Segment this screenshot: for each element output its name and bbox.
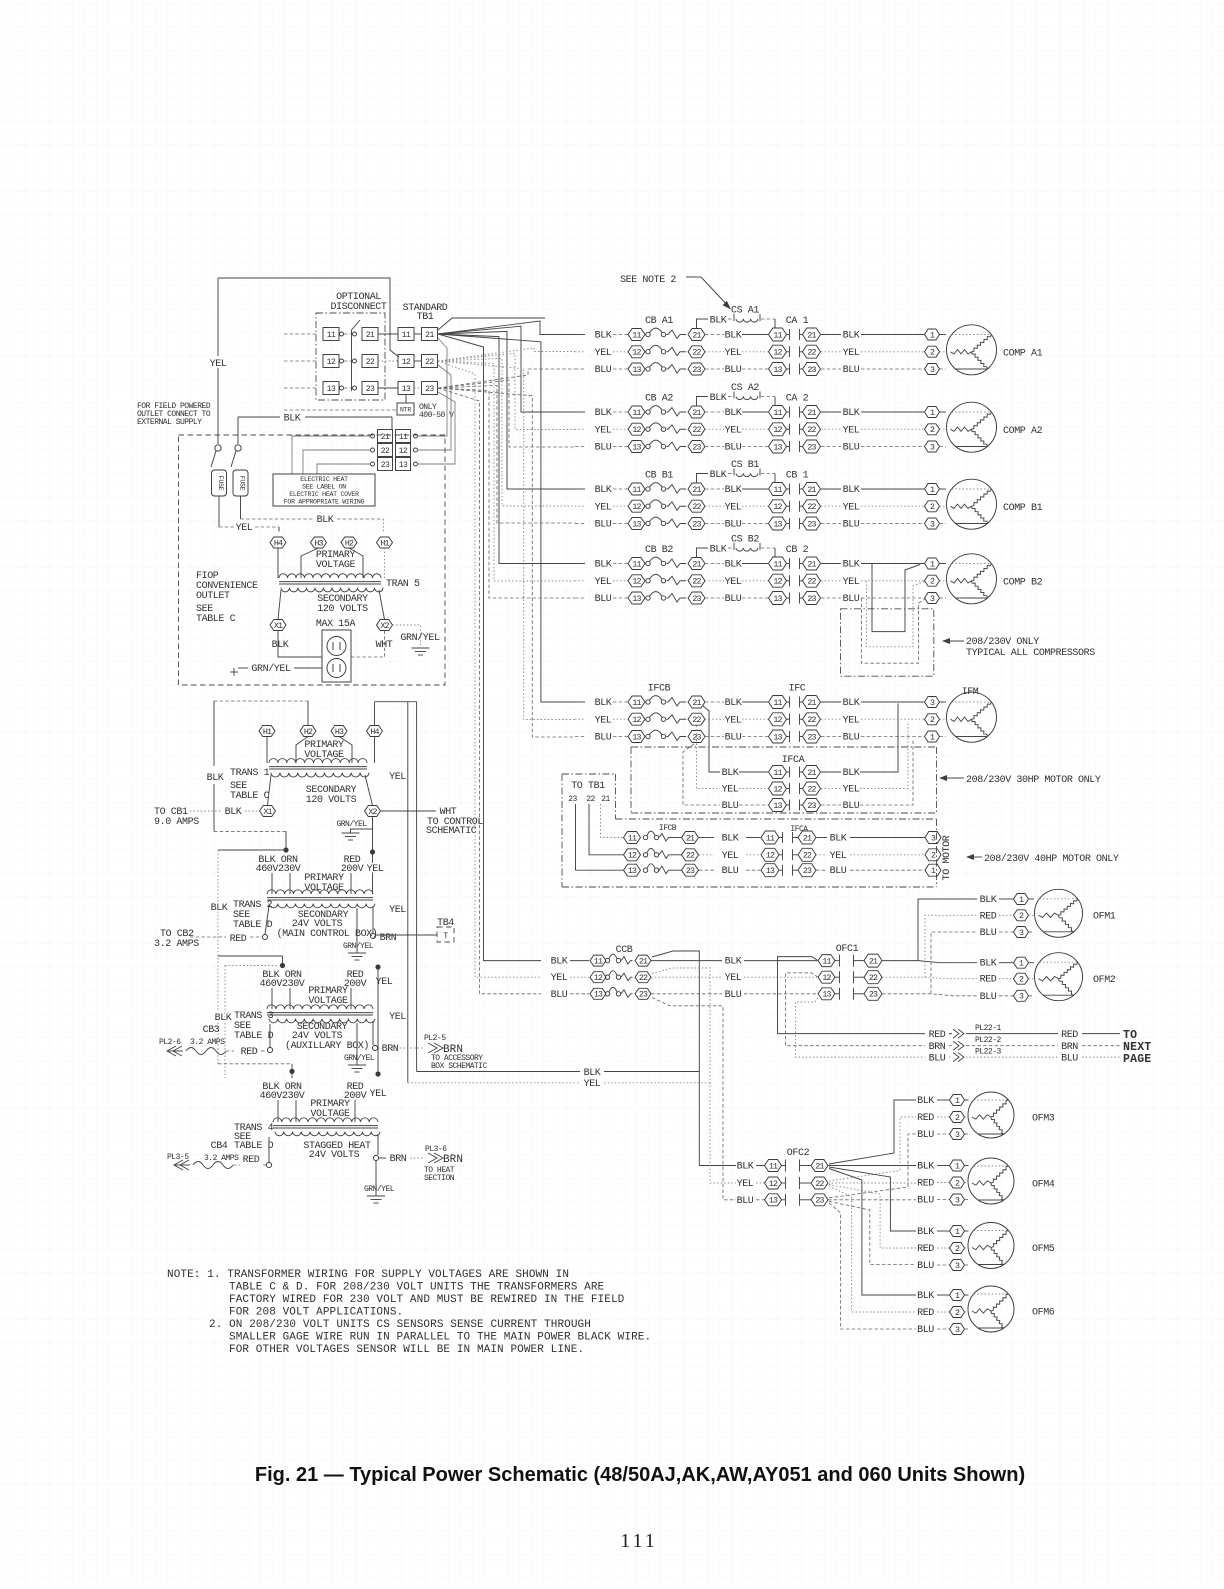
svg-text:3: 3 xyxy=(930,520,935,529)
svg-text:208/230V 40HP MOTOR ONLY: 208/230V 40HP MOTOR ONLY xyxy=(984,853,1119,865)
svg-text:RED: RED xyxy=(917,1113,934,1124)
svg-text:YEL: YEL xyxy=(595,577,612,588)
label FIOP xyxy=(196,571,258,625)
svg-text:YEL: YEL xyxy=(376,977,393,988)
svg-text:22: 22 xyxy=(366,358,375,367)
svg-text:CS B2: CS B2 xyxy=(731,535,759,546)
terminal block TB1 xyxy=(378,303,448,395)
svg-text:23: 23 xyxy=(568,795,577,804)
svg-text:RED: RED xyxy=(243,1155,260,1166)
svg-text:23: 23 xyxy=(807,802,816,811)
svg-text:12: 12 xyxy=(632,716,641,725)
svg-text:BLU: BLU xyxy=(725,443,742,454)
svg-text:120 VOLTS: 120 VOLTS xyxy=(317,604,368,615)
circuit breaker IFCB lower xyxy=(624,824,761,877)
svg-text:23: 23 xyxy=(815,1197,824,1206)
svg-text:11: 11 xyxy=(773,331,782,340)
svg-text:BLK: BLK xyxy=(595,331,612,342)
svg-text:BLK: BLK xyxy=(710,316,727,327)
svg-text:RED: RED xyxy=(1061,1030,1078,1041)
svg-text:23: 23 xyxy=(425,385,434,394)
electric heat box xyxy=(273,474,375,506)
svg-text:GRN/YEL: GRN/YEL xyxy=(343,942,374,951)
svg-text:9.0 AMPS: 9.0 AMPS xyxy=(154,817,199,828)
svg-text:200V: 200V xyxy=(341,864,364,875)
transformer TRAN 5 secondary terminals xyxy=(270,590,393,631)
svg-text:2: 2 xyxy=(930,426,935,435)
fan motor OFM3 xyxy=(917,1092,1055,1141)
svg-text:BLU: BLU xyxy=(725,990,742,1001)
svg-text:23: 23 xyxy=(366,385,375,394)
svg-text:21: 21 xyxy=(692,486,701,495)
svg-text:13: 13 xyxy=(594,991,603,1000)
svg-text:3: 3 xyxy=(931,834,936,843)
svg-text:BLU: BLU xyxy=(843,520,860,531)
svg-text:DISCONNECT: DISCONNECT xyxy=(330,302,386,313)
svg-text:CB4: CB4 xyxy=(211,1141,228,1152)
fuse F1 xyxy=(211,445,227,496)
svg-text:13: 13 xyxy=(773,595,782,604)
svg-text:OFM6: OFM6 xyxy=(1032,1308,1055,1319)
svg-text:BLK: BLK xyxy=(917,1291,934,1302)
motor COMP A1 xyxy=(947,325,1043,375)
svg-text:H1: H1 xyxy=(263,728,272,737)
svg-text:CS A1: CS A1 xyxy=(731,306,759,317)
svg-text:NTR: NTR xyxy=(400,407,411,414)
svg-text:Fig. 21 — Typical Power Schema: Fig. 21 — Typical Power Schematic (48/50… xyxy=(255,1464,1025,1486)
svg-text:PL22-1: PL22-1 xyxy=(975,1024,1002,1033)
svg-text:PL22-2: PL22-2 xyxy=(975,1036,1002,1045)
svg-text:11: 11 xyxy=(773,409,782,418)
svg-text:13: 13 xyxy=(632,520,641,529)
svg-text:11: 11 xyxy=(327,331,336,340)
svg-text:CB B2: CB B2 xyxy=(645,545,673,556)
circuit breaker IFCB xyxy=(575,684,724,744)
contactor IFC xyxy=(725,684,946,744)
current sensor CS A2 xyxy=(697,383,776,406)
svg-text:EXTERNAL SUPPLY: EXTERNAL SUPPLY xyxy=(137,418,202,427)
svg-text:BLU: BLU xyxy=(725,594,742,605)
svg-text:13: 13 xyxy=(399,461,408,470)
svg-text:FOR 208 VOLT APPLICATIONS.: FOR 208 VOLT APPLICATIONS. xyxy=(229,1307,403,1319)
svg-text:FOR OTHER VOLTAGES SENSOR WILL: FOR OTHER VOLTAGES SENSOR WILL BE IN MAI… xyxy=(229,1344,584,1356)
svg-text:H4: H4 xyxy=(274,539,283,548)
svg-text:H1: H1 xyxy=(380,539,389,548)
svg-text:MAX 15A: MAX 15A xyxy=(316,619,356,630)
wire YEL to H4 xyxy=(219,496,279,534)
svg-text:YEL: YEL xyxy=(843,348,860,359)
transformer TRAN 5 xyxy=(279,574,381,578)
svg-text:BLU: BLU xyxy=(595,733,612,744)
svg-text:YEL: YEL xyxy=(830,851,847,862)
svg-text:OFM3: OFM3 xyxy=(1032,1114,1055,1125)
wire WHT to control schematic xyxy=(381,807,484,837)
svg-text:12: 12 xyxy=(773,716,782,725)
svg-text:TO TB1: TO TB1 xyxy=(571,781,605,792)
svg-text:11: 11 xyxy=(632,486,641,495)
svg-text:400-50 V: 400-50 V xyxy=(419,411,454,420)
svg-text:3.2 AMPS: 3.2 AMPS xyxy=(190,1038,225,1047)
svg-text:BLU: BLU xyxy=(722,866,739,877)
svg-text:BLK: BLK xyxy=(725,698,742,709)
wire BLK feed TRANS 2 xyxy=(211,831,289,1063)
svg-text:11: 11 xyxy=(773,699,782,708)
svg-text:22: 22 xyxy=(807,785,816,794)
svg-text:BLK: BLK xyxy=(722,834,739,845)
svg-text:2: 2 xyxy=(1019,912,1024,921)
wire BLK A1 top run xyxy=(438,318,545,330)
svg-text:BLK: BLK xyxy=(725,957,742,968)
svg-text:22: 22 xyxy=(807,503,816,512)
pointer 208/230V 40HP MOTOR ONLY xyxy=(966,853,1119,865)
wire bundle TB1 to loads xyxy=(438,321,575,994)
svg-text:13: 13 xyxy=(822,991,831,1000)
svg-text:H2: H2 xyxy=(345,539,354,548)
notes text xyxy=(167,1269,651,1356)
contactor CA 1 xyxy=(725,316,946,376)
svg-text:12: 12 xyxy=(628,852,637,861)
svg-text:YEL: YEL xyxy=(725,715,742,726)
svg-text:BLK: BLK xyxy=(595,408,612,419)
svg-text:BLU: BLU xyxy=(830,866,847,877)
pointer 208/230V 30HP MOTOR ONLY xyxy=(939,774,1101,786)
svg-text:BLK: BLK xyxy=(211,903,228,914)
svg-text:11: 11 xyxy=(399,433,408,442)
svg-text:CB B1: CB B1 xyxy=(645,471,673,482)
svg-text:BLU: BLU xyxy=(551,990,568,1001)
svg-text:12: 12 xyxy=(632,578,641,587)
svg-text:X1: X1 xyxy=(274,622,283,631)
svg-text:21: 21 xyxy=(366,331,375,340)
svg-text:COMP A2: COMP A2 xyxy=(1003,426,1043,437)
svg-text:BLK: BLK xyxy=(710,545,727,556)
svg-text:GRN/YEL: GRN/YEL xyxy=(251,663,291,675)
svg-text:3: 3 xyxy=(930,595,935,604)
svg-text:BLU: BLU xyxy=(725,520,742,531)
svg-text:YEL: YEL xyxy=(595,502,612,513)
svg-text:13: 13 xyxy=(773,366,782,375)
svg-text:CA 2: CA 2 xyxy=(786,394,809,405)
label TO CB1 xyxy=(154,807,260,828)
svg-text:VOLTAGE: VOLTAGE xyxy=(310,1109,350,1120)
svg-text:GRN/YEL: GRN/YEL xyxy=(364,1185,395,1194)
note pointer SEE NOTE 2 xyxy=(620,275,731,310)
svg-text:TRANS 1: TRANS 1 xyxy=(230,768,270,779)
svg-text:1: 1 xyxy=(955,1162,960,1171)
svg-text:BLU: BLU xyxy=(843,594,860,605)
motor xyxy=(947,692,997,742)
svg-text:YEL: YEL xyxy=(367,864,384,875)
svg-text:YEL: YEL xyxy=(843,715,860,726)
svg-text:13: 13 xyxy=(632,443,641,452)
circuit breaker CB B2 xyxy=(575,545,724,605)
transformer TRANS 3 xyxy=(267,1005,373,1009)
svg-text:23: 23 xyxy=(692,595,701,604)
svg-text:21: 21 xyxy=(807,699,816,708)
svg-text:2: 2 xyxy=(931,852,936,861)
svg-text:BLK: BLK xyxy=(595,485,612,496)
current sensor CS B2 xyxy=(697,535,776,558)
svg-text:BLU: BLU xyxy=(843,365,860,376)
svg-text:12: 12 xyxy=(327,358,336,367)
svg-text:TYPICAL ALL COMPRESSORS: TYPICAL ALL COMPRESSORS xyxy=(966,648,1095,659)
svg-text:BLU: BLU xyxy=(929,1054,946,1065)
motor COMP B1 xyxy=(947,479,1043,529)
svg-text:BLK: BLK xyxy=(843,560,860,571)
transformer TRANS 1 primary terminals xyxy=(259,726,383,764)
svg-text:OFM1: OFM1 xyxy=(1093,912,1116,923)
svg-text:23: 23 xyxy=(639,991,648,1000)
svg-text:BLK: BLK xyxy=(725,485,742,496)
svg-text:13: 13 xyxy=(632,366,641,375)
svg-text:2: 2 xyxy=(955,1245,960,1254)
svg-text:RED: RED xyxy=(929,1030,946,1041)
FIOP convenience outlet enclosure xyxy=(179,435,446,685)
disconnect switch poles xyxy=(284,320,378,395)
svg-text:RED: RED xyxy=(980,975,997,986)
transformer TRANS 4 xyxy=(273,1118,378,1122)
svg-text:120 VOLTS: 120 VOLTS xyxy=(306,795,357,806)
svg-text:FUSE: FUSE xyxy=(217,476,224,491)
svg-text:BLK: BLK xyxy=(843,485,860,496)
svg-text:BLU: BLU xyxy=(722,801,739,812)
svg-text:23: 23 xyxy=(807,595,816,604)
svg-text:BLU: BLU xyxy=(595,365,612,376)
svg-text:1: 1 xyxy=(930,331,935,340)
contactor OFC2 xyxy=(737,1148,828,1207)
terminal block TB4 xyxy=(376,918,454,942)
svg-text:FACTORY WIRED FOR 230 VOLT AND: FACTORY WIRED FOR 230 VOLT AND MUST BE R… xyxy=(229,1294,625,1306)
svg-text:BLU: BLU xyxy=(595,594,612,605)
wire YEL vertical TRANS 2 right xyxy=(375,964,380,1076)
svg-text:2: 2 xyxy=(955,1309,960,1318)
transformer TRANS 1 xyxy=(269,759,367,763)
svg-text:BLK: BLK xyxy=(284,414,301,425)
svg-text:22: 22 xyxy=(692,349,701,358)
svg-text:CB A1: CB A1 xyxy=(645,316,673,327)
svg-text:1: 1 xyxy=(1019,960,1024,969)
transformer TRANS 2 primary labels xyxy=(256,855,384,894)
ground TRANS 4 GRN/YEL xyxy=(364,1161,395,1203)
svg-text:BLK: BLK xyxy=(725,331,742,342)
svg-text:FOR APPROPRIATE WIRING: FOR APPROPRIATE WIRING xyxy=(284,499,365,506)
svg-text:22: 22 xyxy=(639,974,648,983)
svg-text:X2: X2 xyxy=(368,808,377,817)
svg-text:1: 1 xyxy=(930,486,935,495)
svg-text:BLU: BLU xyxy=(737,1196,754,1207)
svg-text:1: 1 xyxy=(955,1228,960,1237)
ground TRANS 3 GRN/YEL xyxy=(344,1023,375,1072)
svg-text:BLK: BLK xyxy=(595,698,612,709)
wires OFC2 fan-out xyxy=(828,1100,916,1329)
svg-text:21: 21 xyxy=(807,769,816,778)
svg-text:22: 22 xyxy=(807,426,816,435)
transformer TRANS 2 xyxy=(267,890,373,894)
svg-text:460V230V: 460V230V xyxy=(260,979,305,990)
svg-text:12: 12 xyxy=(773,503,782,512)
svg-text:GRN/YEL: GRN/YEL xyxy=(344,1054,375,1063)
svg-text:BLK: BLK xyxy=(722,768,739,779)
svg-text:11: 11 xyxy=(628,834,637,843)
terminal strip TO TB1 xyxy=(562,774,937,887)
svg-text:22: 22 xyxy=(815,1180,824,1189)
svg-text:21: 21 xyxy=(815,1162,824,1171)
svg-text:BLK: BLK xyxy=(207,773,224,784)
208/230V only box xyxy=(841,609,1096,676)
convenience outlet xyxy=(322,630,351,682)
enclosure 30HP dash-dot box xyxy=(631,747,937,813)
wire risers CCB to OFC2 xyxy=(652,951,736,1200)
svg-text:23: 23 xyxy=(807,443,816,452)
svg-text:OUTLET: OUTLET xyxy=(196,591,230,602)
svg-text:BLU: BLU xyxy=(917,1325,934,1336)
svg-text:11: 11 xyxy=(773,486,782,495)
svg-text:13: 13 xyxy=(773,802,782,811)
current sensor CS A1 xyxy=(697,306,776,329)
svg-text:13: 13 xyxy=(327,385,336,394)
svg-text:13: 13 xyxy=(632,733,641,742)
svg-text:YEL: YEL xyxy=(389,905,406,916)
svg-text:CB3: CB3 xyxy=(203,1025,220,1036)
svg-text:YEL: YEL xyxy=(370,1089,387,1100)
svg-text:IFCA: IFCA xyxy=(790,825,808,834)
svg-text:22: 22 xyxy=(692,503,701,512)
svg-text:PL2-5: PL2-5 xyxy=(424,1034,446,1043)
svg-text:1: 1 xyxy=(955,1292,960,1301)
svg-text:FUSE: FUSE xyxy=(239,476,246,491)
svg-text:12: 12 xyxy=(773,785,782,794)
svg-text:BLK: BLK xyxy=(710,393,727,404)
contactor CB 2 xyxy=(725,545,946,605)
svg-text:BLK: BLK xyxy=(551,957,568,968)
svg-text:21: 21 xyxy=(803,834,812,843)
svg-text:12: 12 xyxy=(632,426,641,435)
svg-text:TABLE D: TABLE D xyxy=(234,1141,274,1152)
svg-text:GRN/YEL: GRN/YEL xyxy=(400,632,440,644)
svg-text:2: 2 xyxy=(955,1179,960,1188)
svg-text:YEL: YEL xyxy=(843,502,860,513)
svg-text:YEL: YEL xyxy=(843,425,860,436)
wire BLK outlet xyxy=(272,631,322,658)
svg-text:SMALLER GAGE WIRE RUN IN PARAL: SMALLER GAGE WIRE RUN IN PARALLEL TO THE… xyxy=(229,1332,651,1344)
svg-text:22: 22 xyxy=(686,852,695,861)
svg-text:COMP A1: COMP A1 xyxy=(1003,348,1043,359)
svg-text:2: 2 xyxy=(930,578,935,587)
svg-text:1: 1 xyxy=(931,867,936,876)
svg-text:PL2-6: PL2-6 xyxy=(159,1038,181,1047)
svg-text:BRN: BRN xyxy=(929,1042,946,1053)
svg-text:IFC: IFC xyxy=(789,684,806,695)
svg-text:YEL: YEL xyxy=(389,772,406,783)
svg-text:11: 11 xyxy=(766,834,775,843)
circuit breaker CCB xyxy=(551,945,817,1001)
svg-text:SCHEMATIC: SCHEMATIC xyxy=(426,826,477,837)
svg-text:21: 21 xyxy=(807,560,816,569)
svg-text:SEE LABEL ON: SEE LABEL ON xyxy=(302,484,346,491)
svg-text:YEL: YEL xyxy=(722,851,739,862)
svg-text:22: 22 xyxy=(803,852,812,861)
svg-text:RED: RED xyxy=(230,934,247,945)
svg-text:13: 13 xyxy=(773,443,782,452)
wires IFCB to IFCA xyxy=(683,706,720,805)
svg-text:BLK: BLK xyxy=(584,1068,601,1079)
svg-text:BLU: BLU xyxy=(843,443,860,454)
svg-text:BLK: BLK xyxy=(980,959,997,970)
svg-text:21: 21 xyxy=(601,795,610,804)
svg-text:3: 3 xyxy=(1019,993,1024,1002)
wire YEL supply left vertical xyxy=(218,278,399,357)
contactor CB 1 xyxy=(725,471,946,531)
svg-text:RED: RED xyxy=(917,1244,934,1255)
svg-text:BLK: BLK xyxy=(917,1162,934,1173)
contactor IFCA upper xyxy=(722,755,860,812)
svg-text:T: T xyxy=(443,932,448,941)
svg-text:BLU: BLU xyxy=(843,801,860,812)
fan motor OFM4 xyxy=(917,1158,1055,1207)
circuit breaker CB A2 xyxy=(575,394,724,454)
svg-text:3: 3 xyxy=(930,366,935,375)
svg-text:OFC1: OFC1 xyxy=(836,944,859,955)
svg-text:VOLTAGE: VOLTAGE xyxy=(316,560,356,571)
svg-text:X1: X1 xyxy=(263,808,272,817)
svg-text:11: 11 xyxy=(632,331,641,340)
wire dashed to NTR xyxy=(284,409,397,411)
svg-text:21: 21 xyxy=(639,958,648,967)
transformer TRANS 2 secondary wires xyxy=(154,906,397,950)
svg-text:IFCB: IFCB xyxy=(648,684,671,695)
wires TO TB1 to IFCB xyxy=(576,804,624,870)
terminal block electric heat xyxy=(371,430,418,471)
svg-text:YEL: YEL xyxy=(389,1012,406,1023)
svg-text:12: 12 xyxy=(769,1180,778,1189)
svg-text:RED: RED xyxy=(917,1308,934,1319)
contactor IFCA lower xyxy=(761,825,941,877)
svg-text:12: 12 xyxy=(773,349,782,358)
svg-text:RED: RED xyxy=(980,911,997,922)
svg-text:YEL: YEL xyxy=(595,348,612,359)
svg-text:13: 13 xyxy=(769,1197,778,1206)
svg-text:BLU: BLU xyxy=(1061,1054,1078,1065)
svg-text:CB 1: CB 1 xyxy=(786,471,809,482)
svg-text:BLU: BLU xyxy=(980,928,997,939)
svg-text:23: 23 xyxy=(692,443,701,452)
svg-text:11: 11 xyxy=(773,560,782,569)
svg-text:GRN/YEL: GRN/YEL xyxy=(336,820,367,829)
svg-text:2. ON 208/230 VOLT UNITS CS SE: 2. ON 208/230 VOLT UNITS CS SENSORS SENS… xyxy=(209,1319,591,1331)
wires 208/230V compressor loops xyxy=(862,564,927,664)
svg-text:BLK: BLK xyxy=(215,1013,232,1024)
svg-text:21: 21 xyxy=(692,409,701,418)
svg-text:CB 2: CB 2 xyxy=(786,545,809,556)
svg-text:YEL: YEL xyxy=(584,1079,601,1090)
svg-text:H2: H2 xyxy=(304,728,313,737)
svg-text:2: 2 xyxy=(1019,976,1024,985)
svg-text:23: 23 xyxy=(807,733,816,742)
svg-text:1: 1 xyxy=(930,560,935,569)
svg-text:BLK: BLK xyxy=(710,470,727,481)
svg-text:PL22-3: PL22-3 xyxy=(975,1048,1002,1057)
optional disconnect enclosure xyxy=(316,313,385,400)
svg-text:3: 3 xyxy=(955,1196,960,1205)
svg-text:TABLE C: TABLE C xyxy=(196,614,236,625)
svg-text:BRN: BRN xyxy=(382,1044,399,1055)
svg-text:11: 11 xyxy=(632,699,641,708)
svg-text:24V VOLTS: 24V VOLTS xyxy=(309,1150,360,1161)
svg-text:BLK: BLK xyxy=(843,768,860,779)
svg-text:208/230V 30HP MOTOR ONLY: 208/230V 30HP MOTOR ONLY xyxy=(966,774,1101,786)
svg-text:NOTE: 1. TRANSFORMER WIRING FO: NOTE: 1. TRANSFORMER WIRING FOR SUPPLY V… xyxy=(167,1269,569,1281)
svg-text:11: 11 xyxy=(594,958,603,967)
